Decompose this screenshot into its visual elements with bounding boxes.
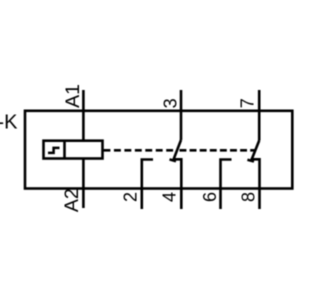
svg-text:A2: A2 [61,188,83,212]
svg-text:8: 8 [239,192,259,202]
svg-text:A1: A1 [62,84,84,108]
svg-text:2: 2 [121,192,141,202]
svg-text:-K: -K [0,112,18,134]
svg-text:7: 7 [238,98,258,108]
svg-text:3: 3 [160,98,180,108]
svg-text:6: 6 [200,192,220,202]
svg-text:4: 4 [160,192,180,202]
